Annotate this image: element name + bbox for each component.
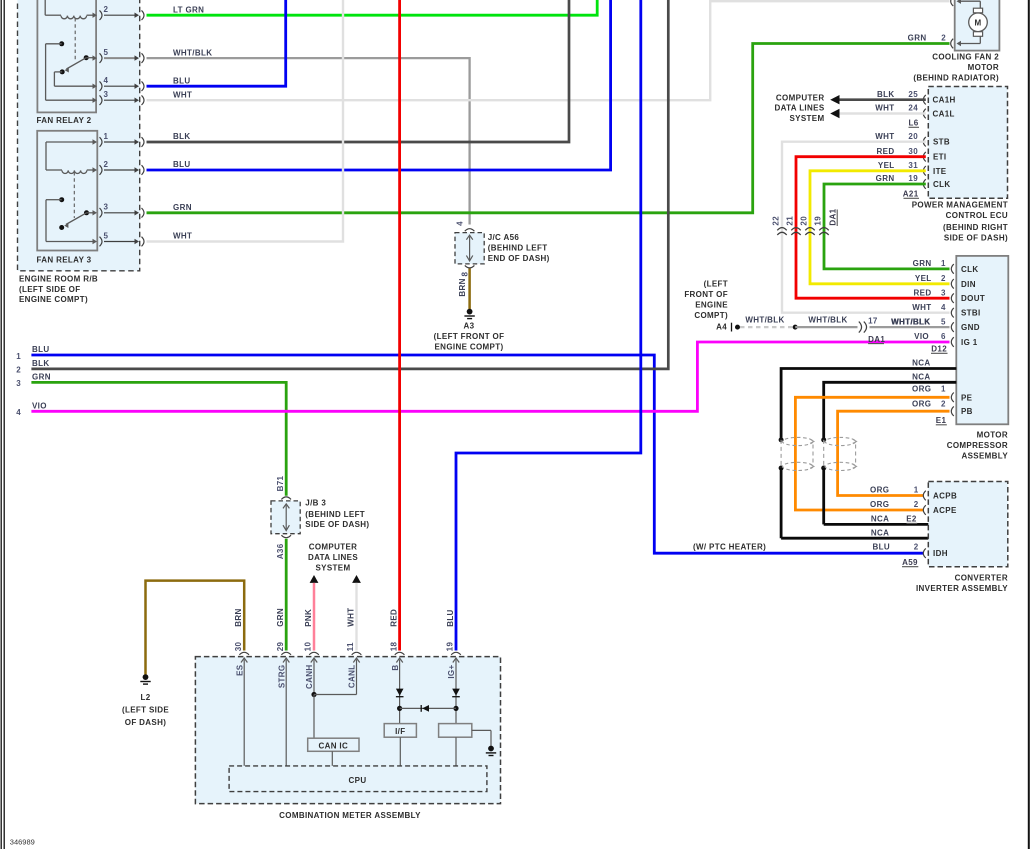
relay FAN RELAY 3 pin 1 [93,139,98,144]
svg-text:NCA: NCA [912,359,930,368]
ECU pin ETI [923,152,926,162]
wire 3 GRN [31,382,286,495]
svg-text:24: 24 [908,104,918,113]
compressor pin CLK [951,264,954,274]
svg-text:BRN: BRN [234,608,243,626]
ground L2 [143,674,149,680]
motor COOLING FAN 2 box [955,0,1000,51]
meter resistor box [439,724,472,738]
meter pin 18 B [395,652,405,655]
svg-text:FAN RELAY 2: FAN RELAY 2 [37,116,92,125]
wire WHT relay2 pin3 [147,1,950,100]
wire GRN CLK to CLK [824,184,950,269]
wire RED to meter [398,0,401,651]
svg-text:2: 2 [941,274,946,283]
svg-text:19: 19 [908,174,918,183]
svg-text:COMPT): COMPT) [694,311,728,320]
svg-text:ENGINE: ENGINE [695,300,728,309]
wire WHT/BLK to DA1 [795,326,857,328]
svg-text:3: 3 [16,379,21,388]
svg-text:VIO: VIO [32,402,47,411]
shielded pair 1 [779,437,784,442]
svg-text:A21: A21 [903,190,919,199]
svg-text:GRN: GRN [173,203,192,212]
svg-text:BRN: BRN [458,278,467,296]
svg-text:L2: L2 [140,693,150,702]
svg-text:CAN IC: CAN IC [318,741,348,750]
compressor pin GND [951,322,954,332]
junction block J/B 3 arc bottom [281,535,291,538]
wire WHT CA1L [840,112,926,114]
wire NCA compressor lower [824,382,957,438]
svg-text:1: 1 [941,385,946,394]
svg-text:WHT/BLK: WHT/BLK [891,317,930,326]
svg-text:L6: L6 [908,119,918,128]
svg-text:I/F: I/F [395,727,405,736]
svg-text:30: 30 [234,642,243,652]
wire BLK CA1H [840,98,926,101]
svg-text:IG+: IG+ [447,665,456,679]
svg-text:CLK: CLK [961,265,979,274]
svg-text:WHT/BLK: WHT/BLK [173,48,212,57]
connector DA1 hop GRN pin 19 [819,228,828,231]
svg-text:346989: 346989 [10,837,35,846]
svg-text:CPU: CPU [349,776,367,785]
svg-text:J/C A56: J/C A56 [488,233,520,242]
ECU pin ITE [923,166,926,176]
wire GRN relay3 pin3 [147,44,950,213]
svg-text:A4: A4 [716,323,727,332]
svg-text:STB: STB [933,138,950,147]
svg-text:J/B 3: J/B 3 [305,499,326,508]
svg-text:10: 10 [304,642,313,652]
wire 1 BLU [31,355,923,553]
svg-text:2: 2 [941,34,946,43]
svg-text:2: 2 [914,500,919,509]
svg-text:CONVERTER: CONVERTER [955,574,1008,583]
svg-text:OF DASH): OF DASH) [125,718,166,727]
svg-text:ENGINE COMPT): ENGINE COMPT) [19,295,88,304]
svg-text:IDH: IDH [933,549,948,558]
wire NCA shield continue 2 [822,468,825,524]
svg-text:20: 20 [908,132,918,141]
svg-text:ACPE: ACPE [933,506,957,515]
svg-text:(BEHIND RADIATOR): (BEHIND RADIATOR) [913,74,999,83]
wire ORG PB to ACPB [838,411,950,495]
page border right line [1028,0,1030,849]
svg-text:WHT: WHT [173,232,192,241]
svg-text:2: 2 [104,5,109,14]
relay FAN RELAY 3 coil [46,141,93,143]
meter I/F to CPU [399,737,401,766]
meter resistor to ground [472,729,491,731]
svg-text:17: 17 [868,316,878,325]
svg-text:ENGINE ROOM R/B: ENGINE ROOM R/B [19,274,98,283]
compressor pin STBI [951,308,954,318]
svg-text:ASSEMBLY: ASSEMBLY [961,452,1008,461]
svg-text:WHT: WHT [173,90,192,99]
relay FAN RELAY 2 pin 4 [93,84,98,89]
svg-text:M: M [974,19,981,28]
svg-text:B71: B71 [276,475,285,491]
svg-text:COMPUTER: COMPUTER [776,93,825,102]
svg-text:(BEHIND RIGHT: (BEHIND RIGHT [943,223,1008,232]
svg-text:3: 3 [104,90,109,99]
svg-text:COMPUTER: COMPUTER [309,543,358,552]
junction block J/B 3 arrow [285,505,287,529]
wire WHT/BLK to GND pin [870,326,950,328]
svg-text:VIO: VIO [914,332,929,341]
relay FAN RELAY 2 switch [59,41,64,46]
wire WHT relay3 pin5 [147,0,344,242]
relay FAN RELAY 2 coil [44,0,46,15]
svg-text:WHT: WHT [875,132,894,141]
meter diode horizontal [400,707,456,709]
svg-text:5: 5 [104,231,109,240]
svg-text:2: 2 [16,366,21,375]
svg-text:A59: A59 [902,558,918,567]
svg-text:ORG: ORG [870,486,889,495]
svg-text:3: 3 [941,288,946,297]
relay FAN RELAY 3 pin 2 [93,167,98,172]
inverter pin ACPE [923,505,926,515]
wire WHT CANL [355,583,357,651]
svg-text:4: 4 [104,76,109,85]
inverter pin ACPB [923,491,926,501]
svg-text:BLK: BLK [877,90,895,99]
svg-text:ORG: ORG [912,399,931,408]
svg-text:INVERTER ASSEMBLY: INVERTER ASSEMBLY [916,584,1008,593]
relay FAN RELAY 3 pin 5 [93,239,98,244]
svg-text:WHT/BLK: WHT/BLK [808,316,847,325]
meter CAN IC box [308,738,359,751]
svg-text:COMBINATION METER ASSEMBLY: COMBINATION METER ASSEMBLY [279,811,421,820]
motor pin 1 arrow [957,0,962,4]
svg-text:NCA: NCA [871,515,889,524]
meter pin 30 ES [239,652,249,655]
svg-text:CA1H: CA1H [933,96,956,105]
svg-text:ACPB: ACPB [933,492,957,501]
compressor MOTOR COMPRESSOR ASSEMBLY box [956,256,1008,424]
svg-text:E2: E2 [906,515,917,524]
meter CPU box [229,766,487,792]
svg-text:BLU: BLU [446,609,455,627]
svg-text:(LEFT SIDE: (LEFT SIDE [122,706,169,715]
svg-text:A3: A3 [464,321,475,330]
svg-text:A36: A36 [276,543,285,559]
svg-text:GRN: GRN [913,259,932,268]
svg-text:1: 1 [941,259,946,268]
arrow up PNK [310,575,319,583]
meter diode B [396,689,404,696]
svg-text:ENGINE COMPT): ENGINE COMPT) [435,342,504,351]
ECU pin CA1L [923,109,926,119]
connector DA1 hop YEL pin 20 [805,228,814,231]
svg-text:DATA LINES: DATA LINES [774,104,824,113]
svg-text:4: 4 [455,221,464,226]
svg-text:GRN: GRN [908,34,927,43]
svg-text:COMPRESSOR: COMPRESSOR [947,441,1008,450]
svg-text:NCA: NCA [912,373,930,382]
ECU pin CLK [923,179,926,189]
meter diode IG [452,689,460,696]
ECU pin STB [923,137,926,147]
meter CAN IC to CPU [331,751,333,766]
relay FAN RELAY 2 pin 3 [93,98,98,103]
connector DA1 hop 17 [859,322,862,333]
junction connector J/C A56 arc top [465,229,475,232]
svg-text:19: 19 [814,216,823,226]
relay FAN RELAY 3 switch [59,197,64,202]
compressor pin IG 1 [951,337,954,347]
svg-text:25: 25 [908,90,918,99]
svg-text:(LEFT FRONT OF: (LEFT FRONT OF [434,332,505,341]
svg-text:BLU: BLU [173,160,191,169]
relay FAN RELAY 3 box [37,131,97,251]
svg-text:ORG: ORG [912,385,931,394]
relay FAN RELAY 3 link [73,172,75,218]
svg-text:SIDE OF DASH): SIDE OF DASH) [305,520,369,529]
svg-text:GRN: GRN [276,608,285,627]
svg-text:POWER MANAGEMENT: POWER MANAGEMENT [912,201,1008,210]
svg-text:ORG: ORG [870,500,889,509]
junction block ENGINE ROOM R/B [18,0,140,271]
meter CANH CANL join [311,692,316,697]
shielded pair 2 [821,437,826,442]
svg-text:5: 5 [941,317,946,326]
svg-text:CANH: CANH [305,665,314,690]
svg-text:B: B [391,665,400,671]
svg-text:4: 4 [16,408,21,417]
svg-text:DA1: DA1 [828,208,837,225]
svg-text:CLK: CLK [933,180,951,189]
svg-text:(W/ PTC HEATER): (W/ PTC HEATER) [693,542,766,551]
svg-text:COOLING FAN 2: COOLING FAN 2 [932,53,999,62]
svg-text:21: 21 [786,216,795,226]
ECU pin CA1H [923,95,926,105]
svg-text:1: 1 [104,132,109,141]
svg-text:8: 8 [461,272,470,277]
wire BRN to ground A3 [468,269,471,310]
wire PNK [313,583,316,651]
wire WHT/BLK dashed from A4 [740,326,793,328]
svg-text:BLU: BLU [173,76,191,85]
wire BLU to meter [456,0,641,651]
svg-text:WHT: WHT [875,104,894,113]
svg-text:NCA: NCA [871,528,889,537]
wire GRN J/B3 to meter [285,539,288,651]
wire LT GRN relay2 pin2 [147,0,598,15]
junction connector J/C A56 arrow [469,237,471,261]
svg-text:END OF DASH): END OF DASH) [488,254,550,263]
compressor pin DOUT [951,293,954,303]
relay FAN RELAY 2 link [74,18,76,60]
svg-text:1: 1 [914,486,919,495]
svg-text:WHT: WHT [346,608,355,627]
svg-text:DIN: DIN [961,280,976,289]
page border left double line [0,0,2,849]
wire BLU relay2 pin4 [147,0,286,86]
relay FAN RELAY 3 pin 3 [93,210,98,215]
wire WHT/BLK relay2 pin5 [147,58,470,224]
connector DA1 hop RED pin 21 [791,228,800,231]
svg-text:18: 18 [389,642,398,652]
svg-text:2: 2 [941,399,946,408]
meter I/F box [384,724,416,738]
svg-text:SYSTEM: SYSTEM [316,563,351,572]
meter junction dots [397,706,402,711]
svg-text:ETI: ETI [933,153,947,162]
svg-text:11: 11 [346,642,355,651]
svg-text:WHT: WHT [912,303,931,312]
relay FAN RELAY 2 pin 2 [93,13,98,18]
svg-text:E1: E1 [936,416,947,425]
wire NCA shield continue 1 [780,468,783,538]
wire ORG PE to ACPE [795,397,949,510]
inverter pin IDH [923,548,926,558]
junction connector J/C A56 box [455,233,484,264]
compressor pin PE [951,393,954,403]
svg-text:FRONT OF: FRONT OF [684,290,728,299]
svg-text:CONTROL ECU: CONTROL ECU [946,211,1008,220]
svg-text:RED: RED [389,609,398,627]
compressor pin PB [951,406,954,416]
svg-text:PNK: PNK [304,609,313,627]
svg-text:PE: PE [961,393,973,402]
svg-text:3: 3 [104,203,109,212]
svg-text:29: 29 [276,642,285,652]
svg-text:FAN RELAY 3: FAN RELAY 3 [37,255,92,264]
svg-text:YEL: YEL [915,274,932,283]
svg-text:MOTOR: MOTOR [968,63,999,72]
wire BLU relay3 pin2 [147,0,611,170]
svg-text:2: 2 [914,542,919,551]
svg-text:WHT/BLK: WHT/BLK [745,316,784,325]
meter pin 10 CANH [309,652,319,655]
svg-text:STBI: STBI [961,309,981,318]
meter pin 11 CANL [352,652,362,655]
svg-text:BLK: BLK [32,359,50,368]
meter COMBINATION METER box [195,657,500,804]
wire 4 VIO [31,342,949,411]
relay FAN RELAY 2 box [37,0,96,112]
svg-text:(BEHIND LEFT: (BEHIND LEFT [488,243,548,252]
junction dot [793,325,798,330]
svg-text:19: 19 [446,642,455,652]
ground A3 [467,309,473,315]
inverter CONVERTER INVERTER box [928,482,1008,567]
svg-text:31: 31 [908,161,918,170]
compressor pin DIN [951,279,954,289]
wire RED ETI to DOUT [796,157,950,299]
svg-text:IG 1: IG 1 [961,338,978,347]
ECU POWER MANAGEMENT box [928,87,1007,199]
svg-text:D12: D12 [931,345,947,354]
svg-text:(LEFT: (LEFT [704,280,728,289]
svg-text:RED: RED [877,147,895,156]
wire WHT STB to STBI [782,142,950,313]
meter pin 19 IG+ [451,652,461,655]
svg-text:SYSTEM: SYSTEM [790,114,825,123]
motor pin 2 arrow [957,41,962,46]
wire BRN from L2 [146,581,245,675]
svg-text:DOUT: DOUT [961,294,985,303]
junction connector J/C A56 arc bottom [465,265,475,268]
svg-text:20: 20 [800,216,809,226]
relay FAN RELAY 2 pin 5 [93,55,98,60]
junction block J/B 3 box [271,501,300,534]
ground meter internal [488,746,494,752]
svg-text:CANL: CANL [348,665,357,689]
svg-text:DA1: DA1 [868,335,885,344]
arrow up WHT [352,575,361,583]
svg-text:MOTOR: MOTOR [977,431,1008,440]
svg-text:GRN: GRN [32,373,51,382]
svg-text:BLU: BLU [873,542,891,551]
wire YEL ITE to DIN [810,171,950,284]
svg-text:2: 2 [104,160,109,169]
meter pin 29 STRG [281,652,291,655]
svg-text:PB: PB [961,407,973,416]
svg-text:RED: RED [914,288,932,297]
svg-text:BLK: BLK [173,132,191,141]
svg-text:DATA LINES: DATA LINES [308,553,358,562]
motor COOLING FAN 2 symbol [959,0,981,2]
svg-text:ES: ES [235,664,244,676]
svg-text:(LEFT SIDE OF: (LEFT SIDE OF [19,285,80,294]
svg-text:GRN: GRN [876,174,895,183]
wire NCA compressor upper [781,369,956,439]
svg-text:30: 30 [908,147,918,156]
svg-text:YEL: YEL [878,161,895,170]
svg-text:CA1L: CA1L [933,110,955,119]
wire BLK relay3 pin1 [147,0,570,142]
svg-text:22: 22 [772,216,781,226]
svg-text:GND: GND [961,323,980,332]
svg-text:4: 4 [941,303,946,312]
svg-text:STRG: STRG [277,665,286,689]
meter resistor to CPU [455,737,457,766]
svg-text:(BEHIND LEFT: (BEHIND LEFT [305,510,365,519]
svg-text:LT GRN: LT GRN [173,5,204,14]
svg-text:6: 6 [941,332,946,341]
junction block J/B 3 arc top [281,497,291,500]
svg-text:5: 5 [104,48,109,57]
connector DA1 hop WHT pin 22 [777,228,786,231]
svg-text:SIDE OF DASH): SIDE OF DASH) [944,233,1008,242]
svg-text:1: 1 [16,352,21,361]
wire 2 BLK [31,0,668,369]
svg-text:ITE: ITE [933,167,947,176]
svg-text:BLU: BLU [32,345,50,354]
